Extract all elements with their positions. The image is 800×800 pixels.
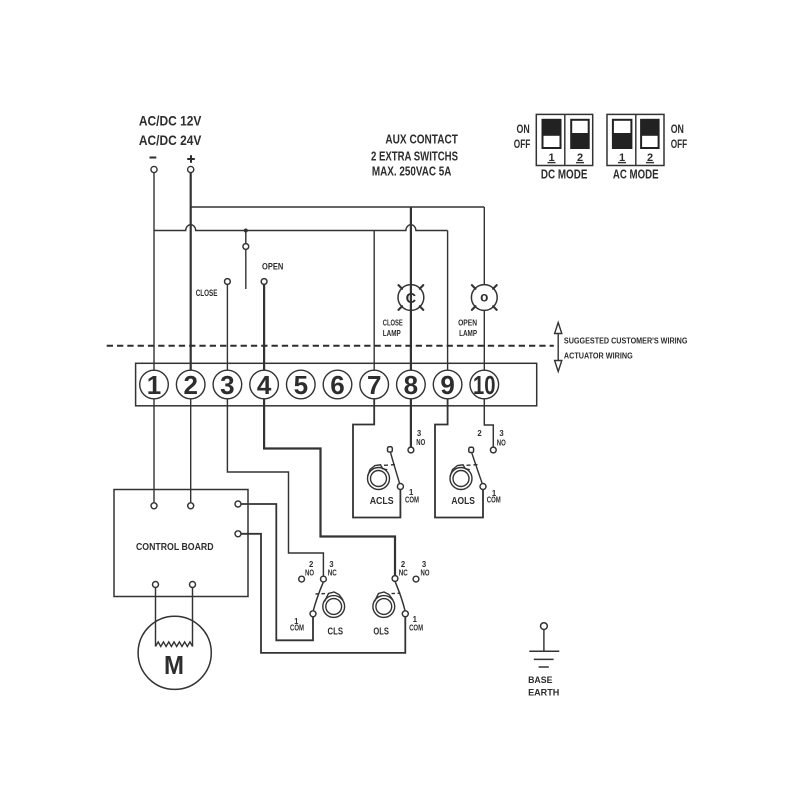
OLS COM contact	[402, 611, 408, 617]
svg-text:CLOSE: CLOSE	[196, 288, 218, 299]
wire close contact down to terminal 3	[226, 284, 228, 370]
bus rail L1 from plus wire	[191, 206, 485, 208]
svg-text:BASE: BASE	[528, 675, 552, 686]
svg-text:COM: COM	[290, 624, 304, 633]
DIP AC MODE: switch 2 (ON)	[641, 120, 659, 148]
svg-text:OFF: OFF	[514, 137, 531, 151]
wire terminal 4 to OLS NC contact (bold)	[264, 399, 395, 576]
svg-text:AC/DC 12V: AC/DC 12V	[139, 112, 202, 128]
control board bottom terminal left	[153, 582, 159, 588]
terminal 1	[140, 370, 169, 400]
svg-text:NC: NC	[328, 568, 337, 577]
plus polarity mark	[187, 155, 195, 163]
svg-text:C: C	[406, 291, 417, 307]
wire terminal 1 down to control board	[153, 399, 155, 503]
OLS linkage dashes	[392, 592, 401, 594]
OLS NO contact	[413, 576, 419, 582]
control board terminal (to T2)	[188, 503, 194, 509]
svg-text:AC MODE: AC MODE	[613, 168, 659, 182]
CLS blade (closed on NC)	[313, 582, 323, 611]
DIP AC MODE: divider	[635, 114, 637, 165]
svg-text:1: 1	[413, 615, 418, 624]
wire terminal 2 down to control board	[190, 399, 192, 503]
earth bar 3	[539, 666, 549, 668]
terminal 4	[250, 370, 279, 400]
AOLS blade tip	[469, 447, 474, 452]
AOLS linkage dashes	[467, 464, 480, 467]
limit switch AOLS: cam	[450, 465, 472, 490]
minus polarity mark	[150, 157, 157, 159]
svg-text:NO: NO	[416, 438, 425, 447]
svg-text:NO: NO	[497, 439, 506, 448]
CLS NC contact	[321, 576, 327, 582]
limit switch ACLS: cam	[368, 465, 390, 490]
wire terminal 3 to CLS NC contact	[227, 399, 323, 577]
label CLOSE LAMP	[383, 317, 403, 338]
svg-text:OPEN: OPEN	[458, 317, 477, 327]
ACLS COM contact	[397, 484, 403, 490]
svg-text:COM: COM	[409, 624, 423, 633]
AOLS COM contact	[480, 484, 486, 490]
svg-text:CLS: CLS	[328, 625, 344, 637]
wire minus supply down to terminal 1	[153, 173, 155, 371]
wire control board lower to OLS COM	[241, 534, 405, 653]
svg-text:AC/DC 24V: AC/DC 24V	[139, 132, 202, 148]
svg-text:1: 1	[147, 370, 161, 400]
terminal 10	[470, 370, 499, 400]
svg-text:7: 7	[367, 370, 381, 400]
wire close-lamp from rail L1 down to terminal 8 (bold)	[410, 207, 412, 370]
dashed separator customer/actuator wiring	[107, 345, 554, 347]
terminal 9	[433, 370, 462, 400]
DIP AC MODE: switch 1 (OFF)	[613, 120, 632, 148]
svg-text:ACLS: ACLS	[370, 495, 394, 507]
wire control board to motor winding left	[155, 588, 157, 647]
base earth lead	[543, 630, 545, 652]
DIP switch block AC MODE: outer box	[607, 114, 664, 165]
svg-text:OPEN: OPEN	[262, 261, 283, 272]
svg-text:3: 3	[499, 429, 504, 438]
svg-text:6: 6	[330, 370, 344, 400]
OLS NC contact	[392, 576, 398, 582]
svg-text:SUGGESTED CUSTOMER'S WIRING: SUGGESTED CUSTOMER'S WIRING	[564, 337, 688, 346]
earth bar 1	[529, 650, 559, 652]
junction dot close/open selector on rail L2	[244, 229, 248, 233]
wire lamp O down to terminal 10	[483, 310, 485, 370]
wire terminal 8 to ACLS NO contact (bold)	[410, 399, 412, 447]
svg-text:CONTROL BOARD: CONTROL BOARD	[136, 542, 214, 553]
ACLS linkage dashes	[384, 464, 397, 467]
DIP AC MODE: number 1	[618, 152, 626, 164]
svg-text:AOLS: AOLS	[451, 495, 475, 507]
svg-text:LAMP: LAMP	[459, 328, 477, 338]
DIP DC MODE: number 2	[576, 152, 584, 164]
open contact	[261, 279, 267, 285]
svg-text:AUX CONTACT: AUX CONTACT	[385, 131, 458, 146]
ACLS blade tip	[388, 447, 393, 452]
supply terminal minus	[151, 166, 157, 172]
svg-text:2: 2	[477, 429, 482, 438]
terminal 7	[360, 370, 389, 400]
limit switch CLS: cam	[323, 592, 345, 617]
terminal strip	[136, 363, 537, 406]
DIP DC MODE: divider	[564, 114, 566, 165]
svg-text:OLS: OLS	[373, 625, 389, 637]
selector common contact	[243, 244, 249, 250]
lamp C (close lamp)	[398, 285, 424, 311]
control board bottom terminal right	[190, 582, 196, 588]
svg-text:M: M	[164, 650, 184, 680]
DIP DC MODE: number 1	[548, 152, 556, 164]
motor winding zigzag	[156, 642, 193, 647]
terminal 3	[213, 370, 242, 400]
selector feed stub	[245, 231, 247, 244]
control board terminal (to T1)	[151, 503, 157, 509]
DIP AC MODE: number 2	[646, 152, 654, 164]
svg-text:3: 3	[220, 370, 234, 400]
svg-text:8: 8	[404, 370, 418, 400]
wire rail L2 corner down to terminal 9	[447, 231, 449, 371]
svg-text:5: 5	[294, 370, 308, 400]
svg-text:9: 9	[440, 370, 454, 400]
DIP DC MODE: switch 2 (OFF)	[571, 120, 589, 148]
ACLS NO contact	[408, 447, 414, 453]
label OPEN LAMP	[458, 317, 477, 338]
lamp O (open lamp)	[471, 285, 497, 311]
wire terminal 10 to AOLS NO contact	[484, 399, 493, 447]
svg-text:NC: NC	[399, 568, 408, 577]
svg-text:EARTH: EARTH	[528, 687, 559, 698]
svg-text:LAMP: LAMP	[383, 328, 401, 338]
terminal 6	[323, 370, 352, 400]
bus rail L2 from minus wire with hops over plus wire and close-lamp wire	[154, 225, 448, 231]
svg-text:2: 2	[183, 370, 197, 400]
svg-text:CLOSE: CLOSE	[383, 317, 403, 327]
svg-text:ON: ON	[517, 122, 530, 136]
svg-text:3: 3	[417, 429, 422, 438]
wire terminal 9 to AOLS COM (loop)	[435, 399, 483, 518]
wire plus supply down to terminal 2 (bold)	[190, 173, 192, 371]
CLS linkage dashes	[316, 593, 326, 595]
AOLS blade	[472, 453, 483, 484]
close contact	[225, 279, 231, 285]
terminal 8	[397, 370, 426, 400]
wire rail L1 corner down to lamp O	[483, 207, 485, 285]
ACLS blade	[391, 453, 400, 484]
OLS blade (closed on NC)	[395, 581, 405, 611]
CLS NO contact	[299, 576, 305, 582]
svg-text:ACTUATOR WIRING: ACTUATOR WIRING	[564, 352, 633, 361]
svg-text:NO: NO	[421, 568, 430, 577]
svg-text:2 EXTRA SWITCHS: 2 EXTRA SWITCHS	[371, 148, 458, 163]
svg-text:COM: COM	[487, 496, 501, 505]
AOLS NO contact	[490, 447, 496, 453]
terminal 5	[287, 370, 316, 400]
wire terminal 7 up to rail L2	[373, 231, 375, 371]
base earth terminal	[541, 623, 548, 630]
control board right terminal upper	[235, 501, 241, 507]
earth bar 2	[534, 658, 554, 660]
svg-text:MAX. 250VAC 5A: MAX. 250VAC 5A	[372, 164, 452, 179]
wire terminal 7 to ACLS COM (loop)	[353, 399, 400, 518]
svg-text:ON: ON	[671, 122, 684, 136]
separator double arrow	[555, 323, 562, 372]
CLS COM contact	[310, 611, 316, 617]
supply terminal plus	[188, 166, 194, 172]
control board box	[114, 490, 248, 597]
limit switch OLS: cam	[373, 592, 395, 617]
svg-text:4: 4	[257, 370, 272, 400]
svg-text:OFF: OFF	[671, 137, 688, 151]
svg-text:DC MODE: DC MODE	[541, 168, 588, 182]
control board right terminal lower	[235, 531, 241, 537]
terminal 2	[176, 370, 205, 400]
svg-text:NO: NO	[305, 568, 314, 577]
DIP DC MODE: switch 1 (ON)	[543, 120, 561, 148]
wire open contact down to terminal 4 (bold)	[263, 284, 265, 370]
svg-text:10: 10	[473, 370, 496, 400]
selector blade (open position)	[245, 250, 247, 290]
svg-text:COM: COM	[405, 496, 419, 505]
DIP DC MODE: outer box	[536, 114, 592, 165]
svg-text:o: o	[480, 290, 488, 305]
motor M circle	[138, 616, 211, 689]
wire control board to motor winding right	[192, 588, 194, 647]
wire control board upper to CLS COM	[241, 504, 313, 640]
